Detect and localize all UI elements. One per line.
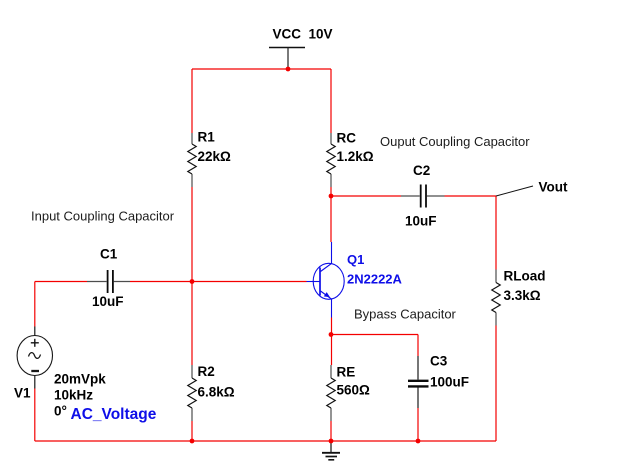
svg-text:100uF: 100uF (430, 375, 469, 390)
svg-text:2N2222A: 2N2222A (347, 272, 403, 287)
svg-text:V1: V1 (14, 386, 31, 401)
svg-text:AC_Voltage: AC_Voltage (71, 406, 157, 423)
svg-text:C2: C2 (413, 163, 430, 178)
svg-text:C1: C1 (100, 247, 118, 262)
svg-text:Bypass Capacitor: Bypass Capacitor (354, 307, 457, 322)
svg-text:RC: RC (337, 131, 357, 146)
svg-text:0°: 0° (54, 404, 67, 419)
svg-text:560Ω: 560Ω (337, 383, 371, 398)
svg-text:RE: RE (337, 365, 356, 380)
svg-text:C3: C3 (430, 354, 448, 369)
svg-text:VCC 10V: VCC 10V (273, 27, 333, 42)
svg-text:6.8kΩ: 6.8kΩ (198, 385, 235, 400)
svg-text:3.3kΩ: 3.3kΩ (504, 288, 541, 303)
svg-text:10kHz: 10kHz (54, 388, 93, 403)
svg-text:Ouput Coupling Capacitor: Ouput Coupling Capacitor (380, 134, 530, 149)
svg-text:10uF: 10uF (92, 294, 124, 309)
svg-text:Q1: Q1 (347, 252, 364, 267)
svg-text:R1: R1 (198, 130, 216, 145)
svg-text:20mVpk: 20mVpk (54, 372, 106, 387)
svg-text:22kΩ: 22kΩ (198, 149, 232, 164)
svg-text:10uF: 10uF (405, 214, 437, 229)
svg-text:1.2kΩ: 1.2kΩ (337, 149, 374, 164)
svg-text:Vout: Vout (539, 180, 568, 195)
svg-text:R2: R2 (198, 364, 215, 379)
svg-text:RLoad: RLoad (504, 269, 546, 284)
svg-text:Input Coupling Capacitor: Input Coupling Capacitor (31, 209, 175, 224)
